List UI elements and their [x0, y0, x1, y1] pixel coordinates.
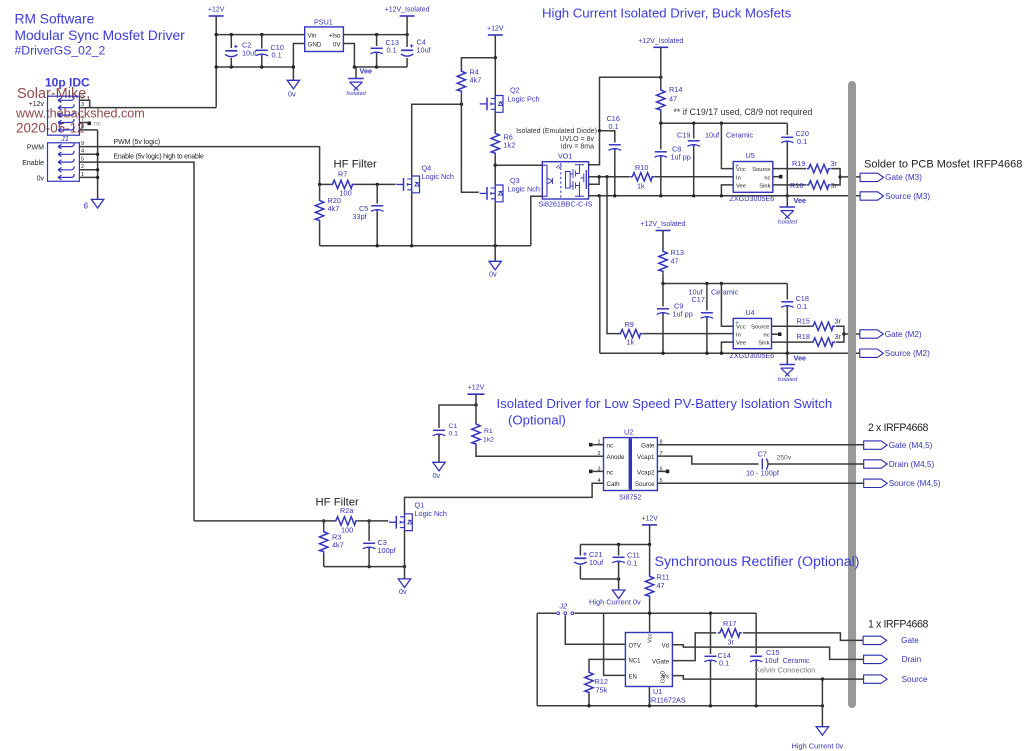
svg-text:ZXGD3005E6: ZXGD3005E6: [730, 351, 775, 360]
wire C13 leads: [376, 35, 378, 67]
gate driver U5 ZXGD3005E6: [733, 162, 773, 193]
U5 nc square: [779, 175, 783, 179]
svg-text:ZXGD3005E6: ZXGD3005E6: [730, 194, 775, 203]
svg-text:R18: R18: [797, 332, 810, 341]
U4 nc square: [778, 332, 782, 336]
svg-text:Ceramic: Ceramic: [711, 288, 739, 297]
transistor Q1 Logic Nch: [389, 514, 412, 531]
capacitor C10: [255, 50, 268, 56]
wire C7 to Drain flag: [768, 463, 864, 465]
U2 nc3 square: [589, 470, 593, 474]
svg-text:(Optional): (Optional): [508, 413, 566, 428]
svg-text:nc: nc: [763, 333, 769, 339]
svg-text:High Current 0v: High Current 0v: [589, 598, 641, 607]
resistor R18: [811, 338, 835, 346]
svg-text:Source: Source: [752, 167, 770, 173]
capacitor C14: [704, 656, 717, 662]
resistor R10: [630, 173, 654, 181]
svg-text:R2a: R2a: [340, 506, 354, 515]
wire R17 to Gate flag: [743, 633, 863, 641]
port Gate M2: [860, 330, 922, 339]
wire J2 pin2 to OTV: [565, 615, 625, 644]
svg-text:Enable: Enable: [22, 160, 44, 167]
wire U2 gate to flag: [657, 444, 863, 446]
svg-text:Isolated: Isolated: [778, 377, 798, 383]
wire J1 pin1 stub to ground bus: [79, 176, 97, 178]
svg-text:Drain (M4,5): Drain (M4,5): [889, 460, 935, 469]
svg-text:10uf: 10uf: [705, 131, 720, 140]
svg-text:Ceramic: Ceramic: [726, 131, 754, 140]
wire PSU 0V to Vee rail: [343, 44, 354, 68]
ground high current 1: [612, 590, 624, 599]
svg-text:Gate: Gate: [641, 443, 655, 450]
wire rail to ground stub: [494, 246, 496, 262]
svg-text:1k2: 1k2: [504, 141, 516, 150]
wire U2 nc1 stub: [593, 444, 604, 446]
wire VO1 Vdd to isolated rail: [589, 77, 661, 165]
wire +12V drop: [215, 16, 217, 108]
capacitor C21: [574, 552, 587, 564]
resistor R19: [807, 164, 831, 172]
svg-text:Drain: Drain: [902, 655, 922, 664]
svg-text:Modular Sync Mosfet Driver: Modular Sync Mosfet Driver: [15, 28, 186, 43]
wire high current ground rail: [537, 705, 822, 707]
capacitor C3: [363, 543, 376, 549]
svg-text:10uf: 10uf: [765, 656, 780, 665]
capacitor C2: [225, 45, 238, 57]
svg-text:100: 100: [340, 189, 352, 198]
wire J1 pin8 to ground bus: [79, 129, 97, 131]
wire R7 to Q4 gate: [354, 183, 395, 185]
ground 0V PSU: [287, 80, 299, 89]
U2 Vcap2 nc square: [666, 470, 670, 474]
power +12V_Isolated stage1: [638, 38, 683, 48]
resistor R4: [457, 69, 465, 93]
svg-text:Sink: Sink: [759, 183, 770, 189]
svg-text:R14: R14: [669, 85, 682, 94]
svg-text:1 x IRFP4668: 1 x IRFP4668: [868, 619, 928, 631]
svg-text:Q2: Q2: [510, 86, 520, 95]
svg-text:1k: 1k: [627, 338, 635, 347]
wire U2 nc3 stub: [593, 470, 604, 472]
svg-text:1uf pp: 1uf pp: [673, 310, 693, 319]
wire to R4 top: [461, 58, 495, 70]
svg-text:** if C19/17 used, C8/9 not re: ** if C19/17 used, C8/9 not required: [674, 107, 813, 117]
svg-text:C17: C17: [692, 295, 705, 304]
svg-text:4k7: 4k7: [328, 204, 340, 213]
svg-text:6: 6: [84, 202, 89, 211]
wire NC1 to R12: [589, 659, 625, 670]
svg-text:Vd: Vd: [662, 643, 669, 649]
svg-text:2 x IRFP4668: 2 x IRFP4668: [868, 422, 928, 434]
wire R16 to gate node: [831, 177, 840, 185]
PSU module PSU1: [305, 18, 344, 52]
transistor Q4 Logic Nch: [396, 176, 419, 193]
capacitor C5: [371, 206, 384, 212]
svg-text:Source: Source: [751, 324, 769, 330]
junctions HF filter 1: [318, 183, 379, 186]
ground 0v C1: [433, 462, 445, 471]
svg-text:U4: U4: [746, 308, 755, 317]
wire Q2 drain to R6: [494, 112, 496, 132]
svg-text:10 - 100pf: 10 - 100pf: [746, 469, 780, 478]
svg-text:R10: R10: [635, 163, 648, 172]
wire +12V to Q2 source: [494, 35, 496, 96]
svg-text:Ceramic: Ceramic: [783, 656, 811, 665]
wire U5 nc stub: [773, 176, 779, 178]
svg-text:+12V_Isolated: +12V_Isolated: [385, 7, 430, 14]
svg-text:nc: nc: [764, 175, 770, 181]
svg-text:Isolated: Isolated: [346, 91, 366, 97]
svg-text:In: In: [736, 333, 741, 339]
svg-text:Isolated (Emulated Diode): Isolated (Emulated Diode): [516, 128, 597, 135]
wire R1 to U2 anode: [476, 446, 604, 456]
junctions Vcc rail2: [661, 282, 723, 285]
resistor R16: [807, 181, 831, 189]
wire R6 to Q3 drain: [494, 155, 496, 185]
wire R7 left lead: [320, 183, 331, 185]
resistor R20: [315, 198, 323, 222]
wire R10 to U5 In: [654, 176, 733, 178]
resistor R12: [585, 670, 593, 694]
svg-text:Vee: Vee: [794, 196, 807, 205]
capacitor C15: [750, 656, 763, 662]
svg-text:Anode: Anode: [607, 454, 625, 461]
junction VO1 out: [597, 175, 608, 178]
connector J1 housing bottom (pins 9,4,5,2,1): [48, 143, 80, 182]
svg-text:Gate: Gate: [901, 636, 919, 645]
junctions ground rail sync: [587, 704, 824, 707]
junction anode node: [494, 164, 497, 167]
svg-text:Gate (M3): Gate (M3): [885, 173, 922, 182]
wire C5 leads: [376, 184, 378, 245]
capacitor C7: [762, 459, 768, 470]
wire C1 to ground: [438, 436, 440, 463]
svg-text:1k: 1k: [637, 182, 645, 191]
resistor R1: [472, 422, 480, 446]
svg-text:GND: GND: [661, 671, 667, 683]
capacitor C20: [781, 137, 794, 143]
wire gate node to Q3 gate: [461, 93, 478, 192]
svg-text:3r: 3r: [835, 317, 842, 326]
wire C19 leads: [693, 123, 695, 196]
wire to isolated ground 2: [786, 353, 788, 364]
svg-text:EN: EN: [629, 674, 637, 680]
capacitor C1: [433, 430, 446, 436]
capacitor C17: [701, 313, 714, 319]
wire Vss to isolated ground 1: [786, 196, 788, 207]
junction Vs kelvin: [821, 677, 824, 680]
wire U2 Vcap2 stub: [657, 470, 665, 472]
svg-text:47: 47: [671, 257, 679, 266]
svg-text:1k2: 1k2: [483, 437, 494, 444]
wire R13 to rail2: [662, 274, 664, 284]
power +12V Q2: [487, 26, 504, 36]
wire rail to VO1 cathode: [531, 196, 543, 245]
J1 nc square: [87, 122, 91, 126]
wire isolated Vss rail stage1: [589, 195, 861, 197]
capacitor C8: [655, 152, 668, 158]
wire C14 leads: [710, 613, 712, 706]
wire C9 leads: [662, 284, 664, 354]
ground 0v Q1: [398, 579, 410, 588]
resistor R15: [811, 322, 835, 330]
svg-text:Vcc: Vcc: [736, 324, 746, 330]
resistor R11: [645, 574, 653, 598]
junctions Vss rail: [597, 194, 789, 197]
connector J1 pin arrows top: [58, 97, 74, 132]
svg-text:PSU1: PSU1: [314, 18, 333, 27]
ground 0v logic: [489, 261, 501, 270]
svg-text:nc: nc: [94, 121, 102, 128]
svg-text:U2: U2: [624, 428, 633, 437]
wire U4 nc stub: [772, 333, 778, 335]
resistor R9: [618, 329, 642, 337]
capacitor C13: [370, 48, 383, 54]
wire Q4 drain to gate node: [412, 104, 462, 176]
wire logic ground rail: [320, 245, 531, 247]
wire C11 leads: [618, 545, 620, 580]
svg-text:Si8261BBC-C-IS: Si8261BBC-C-IS: [539, 200, 593, 209]
svg-text:Logic Nch: Logic Nch: [422, 172, 454, 181]
capacitor C16: [609, 145, 622, 151]
svg-text:R1: R1: [484, 428, 493, 435]
svg-text:Logic Nch: Logic Nch: [508, 185, 540, 194]
wire R12 to ground rail: [588, 694, 590, 706]
svg-text:+12V: +12V: [487, 26, 504, 33]
svg-text:0.1: 0.1: [797, 137, 807, 146]
wire VO1 out down to R9: [607, 177, 619, 334]
wire VO1 out jog: [589, 177, 600, 185]
wire anode node to VO1: [495, 164, 542, 166]
junctions logic ground rail: [376, 244, 497, 247]
svg-text:J1: J1: [60, 134, 69, 143]
wire C16 branch: [600, 131, 615, 196]
wire R3 leads: [323, 521, 325, 567]
wire to Gate M3 flag: [840, 176, 860, 178]
junction PSU gnd rail: [292, 65, 295, 68]
wire Vd to Drain flag: [672, 645, 863, 660]
svg-text:Source: Source: [635, 481, 655, 488]
svg-text:Source (M3): Source (M3): [885, 192, 930, 201]
svg-text:Vcap1: Vcap1: [637, 454, 655, 461]
svg-text:Isolated: Isolated: [778, 220, 798, 226]
wire Q3 source to rail: [494, 202, 496, 246]
wire C18 leads: [786, 284, 788, 354]
svg-text:0v: 0v: [489, 270, 497, 279]
wire J1 nc stub: [79, 122, 87, 124]
wire iso2 to R13: [662, 231, 664, 250]
resistor R2a: [334, 517, 358, 525]
wire J2 pin1 left: [537, 612, 556, 614]
svg-text:Gate (M4,5): Gate (M4,5): [889, 441, 933, 450]
svg-text:Vee: Vee: [360, 67, 373, 76]
ground J1: [91, 199, 103, 208]
svg-text:Vcc: Vcc: [648, 633, 654, 643]
port Drain sync: [864, 655, 922, 664]
svg-text:R9: R9: [625, 320, 634, 329]
wire C3 leads: [368, 521, 370, 567]
junctions Q2 bias: [460, 56, 497, 106]
port Gate sync: [863, 636, 919, 645]
resistor R17: [718, 629, 742, 637]
wire C10 leads: [261, 35, 263, 67]
wire R20 leads: [319, 184, 321, 245]
svg-text:+12V: +12V: [641, 515, 658, 522]
wire Vee rail: [354, 66, 407, 68]
junctions Vdd riser: [598, 76, 663, 133]
svg-text:VO1: VO1: [558, 152, 572, 161]
wire to Gate M2 flag: [844, 333, 860, 335]
svg-text:0.1: 0.1: [719, 659, 729, 668]
svg-text:High Current Isolated Driver,: High Current Isolated Driver, Buck Mosfe…: [542, 6, 792, 21]
wire PSU +Iso output: [343, 34, 407, 36]
junctions sync Vcc rail: [617, 543, 651, 581]
port Source M45: [864, 479, 941, 488]
port Source sync: [864, 675, 928, 684]
svg-text:4k7: 4k7: [332, 541, 344, 550]
svg-text:+12V: +12V: [208, 7, 225, 14]
junction gate M2 node: [842, 332, 845, 335]
svg-text:10uf: 10uf: [417, 46, 432, 55]
jumper J2 pins: [557, 612, 574, 615]
svg-text:PWM: PWM: [27, 145, 44, 152]
wire Q4 source to rail: [411, 193, 413, 246]
junction U2 supply: [474, 403, 477, 406]
wire J2 to ground rail: [536, 613, 538, 706]
svg-text:NC1: NC1: [629, 658, 642, 664]
svg-text:Idrv = 8ma: Idrv = 8ma: [561, 144, 594, 151]
svg-text:0V: 0V: [333, 42, 341, 49]
wire Vcc rail stage2: [663, 283, 787, 285]
wire PSU GND to ground: [293, 44, 304, 81]
svg-text:3r: 3r: [728, 638, 735, 647]
wire R9 to U4 In: [643, 333, 734, 335]
opto driver VO1 Si8261: [542, 162, 588, 199]
svg-text:10uf: 10uf: [589, 558, 604, 567]
wire R14 to Vcc rail1: [660, 112, 662, 123]
svg-text:Si8752: Si8752: [619, 493, 641, 502]
port Source M3: [860, 192, 930, 201]
port Gate M45: [864, 441, 933, 450]
svg-text:0v: 0v: [399, 587, 407, 596]
junctions iso rails: [353, 33, 409, 69]
svg-text:250v: 250v: [777, 455, 792, 462]
svg-text:2: 2: [598, 451, 601, 457]
svg-text:10p IDC: 10p IDC: [45, 76, 90, 90]
wire enable to R2a: [194, 520, 334, 522]
wire C4 leads: [406, 16, 408, 67]
svg-text:Cath: Cath: [607, 481, 621, 488]
wire C21 to C11 bottom: [580, 578, 618, 580]
svg-text:0.1: 0.1: [797, 302, 807, 311]
svg-text:33pf: 33pf: [353, 212, 368, 221]
svg-text:Vcap2: Vcap2: [637, 469, 655, 476]
wire Vss down to stage2 rail: [599, 196, 601, 353]
svg-text:R16: R16: [790, 181, 803, 190]
wire U2 Vcap1 to C7: [657, 456, 758, 464]
svg-text:75k: 75k: [596, 686, 608, 695]
connector J1 pin arrows bottom: [58, 143, 74, 180]
svg-text:Isolated Driver for Low Speed: Isolated Driver for Low Speed PV-Battery…: [497, 396, 833, 411]
junctions Vcc rail1: [659, 122, 723, 125]
svg-text:+12v: +12v: [29, 101, 45, 108]
power +12V_Isolated stage2: [641, 221, 686, 231]
wire U2 cathode to Q1 drain: [405, 483, 604, 514]
wire U4 sink to R18: [772, 341, 812, 343]
wire PWM net to HF filter: [79, 147, 319, 185]
svg-text:nc: nc: [607, 443, 614, 450]
resistor R14: [657, 88, 665, 112]
svg-text:OTV: OTV: [629, 643, 641, 649]
wire J1 pin2 bracket: [79, 100, 89, 107]
power +12V U2: [468, 385, 485, 395]
svg-text:Vee: Vee: [736, 341, 746, 347]
wire U2 source to flag: [657, 482, 863, 484]
wire Vee to isolated ground: [355, 67, 357, 79]
svg-text:Gate (M2): Gate (M2): [885, 330, 922, 339]
junctions HF filter 2: [322, 519, 406, 568]
J1 pin numbers: [81, 95, 84, 178]
capacitor C19: [687, 141, 700, 147]
wire J2 net to EN: [604, 613, 626, 675]
wire C8 leads: [660, 123, 662, 196]
svg-text:C7: C7: [758, 450, 767, 459]
wire C21 leads: [579, 545, 581, 580]
port Drain M45: [864, 460, 935, 469]
svg-text:0.1: 0.1: [272, 51, 282, 60]
svg-text:Source (M2): Source (M2): [885, 349, 930, 358]
svg-text:0.1: 0.1: [627, 559, 637, 568]
wire PSU top rail: [216, 34, 305, 36]
wire C15 leads: [755, 613, 757, 706]
wire U5 source to R19: [773, 168, 806, 170]
wire Vcc rail stage1: [661, 122, 788, 124]
wire isolated rail stage2 bottom: [600, 352, 860, 354]
resistor R7: [330, 180, 354, 188]
power +12V_Isolated top: [385, 7, 430, 17]
svg-text:47: 47: [669, 95, 677, 104]
capacitor C4: [401, 44, 414, 56]
svg-text:100: 100: [341, 526, 353, 535]
svg-text:100pf: 100pf: [378, 546, 397, 555]
svg-text:VGate: VGate: [652, 659, 670, 665]
junction gate M3 node: [838, 175, 841, 178]
wire J2 to Vcc net: [574, 612, 756, 614]
svg-text:nc: nc: [607, 469, 614, 476]
gate driver U4 ZXGD3005E6: [733, 318, 771, 348]
ground Isolated stage1: [778, 207, 798, 226]
svg-text:C19: C19: [677, 131, 690, 140]
wire R2a to Q1 gate: [358, 520, 389, 522]
svg-text:#DriverGS_02_2: #DriverGS_02_2: [15, 44, 106, 58]
wire C17 leads: [706, 284, 708, 354]
wire U5 Vcc riser: [721, 123, 733, 168]
svg-text:UVLO = 8v: UVLO = 8v: [560, 136, 595, 143]
wire Vs to high current ground 2: [821, 679, 823, 727]
svg-text:3r: 3r: [831, 159, 838, 168]
resistor R13: [659, 249, 667, 273]
svg-text:Vin: Vin: [308, 32, 317, 39]
transistor Q3 Logic Nch: [480, 185, 503, 202]
power +12V rail top-left: [208, 7, 225, 17]
wire C20 leads: [786, 123, 788, 196]
wire +12v from J1 to PSU rail: [79, 107, 216, 109]
transistor Q2 Logic Pch: [480, 96, 503, 113]
power +12V sync: [641, 515, 658, 525]
wire J1 pin4 stub to ground bus: [79, 153, 97, 155]
svg-text:R7: R7: [338, 170, 347, 179]
